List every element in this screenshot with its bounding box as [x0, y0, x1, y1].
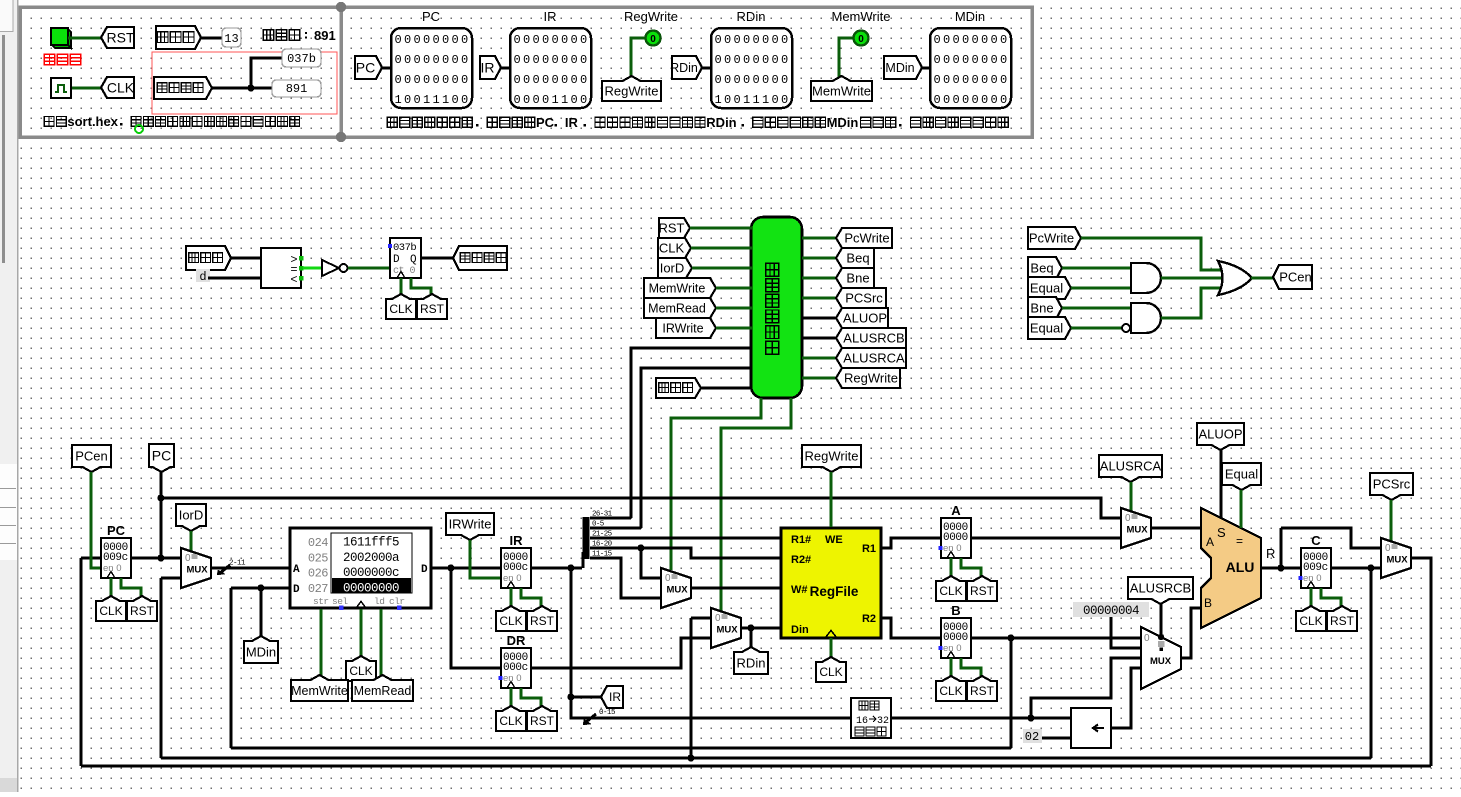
svg-text:00000000: 00000000	[395, 53, 471, 67]
svg-text:891: 891	[314, 28, 336, 43]
svg-text:CLK: CLK	[499, 614, 522, 628]
svg-text:037b: 037b	[393, 242, 416, 254]
svg-text:PCSrc: PCSrc	[845, 291, 883, 306]
svg-text:MUX: MUX	[1126, 525, 1148, 536]
svg-text:PCen: PCen	[1279, 270, 1312, 285]
svg-text:CLK: CLK	[499, 714, 522, 728]
svg-text:A: A	[293, 564, 300, 576]
svg-text:024: 024	[308, 536, 328, 550]
svg-text:Beq: Beq	[846, 251, 869, 266]
svg-text:00000000: 00000000	[934, 93, 1010, 107]
svg-text:ALUSRCA: ALUSRCA	[843, 351, 905, 366]
svg-text:RST: RST	[530, 614, 555, 628]
svg-text:PcWrite: PcWrite	[1029, 231, 1074, 246]
svg-text:ALUOP: ALUOP	[843, 311, 887, 326]
svg-text:RDin: RDin	[737, 9, 766, 24]
svg-text:RegFile: RegFile	[810, 584, 859, 599]
svg-text:00000000: 00000000	[715, 53, 791, 67]
svg-text:RegWrite: RegWrite	[605, 84, 659, 99]
svg-text:MUX: MUX	[666, 585, 688, 596]
svg-text:RST: RST	[420, 302, 445, 316]
svg-text:00000000: 00000000	[514, 33, 590, 47]
svg-text:Equal: Equal	[1030, 321, 1063, 336]
svg-text:MUX: MUX	[186, 565, 208, 576]
svg-text:PC: PC	[152, 447, 171, 463]
svg-text:0: 0	[1125, 513, 1131, 524]
svg-text:CLK: CLK	[107, 79, 135, 95]
svg-text:Bne: Bne	[1030, 301, 1053, 316]
svg-text:RegWrite: RegWrite	[844, 371, 898, 386]
svg-text:PCen: PCen	[75, 449, 108, 464]
svg-text:R2: R2	[862, 613, 876, 625]
svg-text:<: <	[290, 273, 297, 287]
svg-text:0: 0	[1144, 633, 1150, 644]
svg-text:MemWrite: MemWrite	[649, 281, 706, 295]
svg-text:13: 13	[224, 32, 238, 46]
svg-text:R: R	[1266, 546, 1275, 561]
svg-text:=: =	[1236, 534, 1243, 548]
svg-text:PC: PC	[356, 59, 375, 75]
svg-text:RST: RST	[970, 584, 995, 598]
svg-text:IorD: IorD	[660, 261, 685, 276]
svg-text:RDin: RDin	[706, 115, 736, 130]
svg-text:ALUSRCA: ALUSRCA	[1100, 459, 1162, 474]
svg-text:CLK: CLK	[99, 604, 122, 618]
svg-text:IR: IR	[609, 690, 621, 704]
svg-text:D: D	[393, 254, 400, 266]
svg-text:S: S	[1217, 525, 1226, 540]
svg-text:0: 0	[185, 553, 191, 564]
svg-text:IRWrite: IRWrite	[662, 321, 703, 335]
svg-text:PC: PC	[107, 523, 126, 538]
svg-text:Q: Q	[410, 254, 417, 266]
svg-text:0000000c: 0000000c	[343, 566, 399, 580]
svg-text:RST: RST	[659, 221, 685, 236]
svg-text:MDin: MDin	[827, 115, 859, 130]
svg-text:00000000: 00000000	[934, 33, 1010, 47]
svg-text:2-11: 2-11	[229, 560, 246, 568]
svg-text:32: 32	[877, 716, 889, 727]
svg-text:sel: sel	[332, 596, 348, 607]
svg-text:RST: RST	[107, 29, 135, 45]
svg-text:R1#: R1#	[791, 534, 811, 546]
svg-text:ct 0: ct 0	[393, 266, 416, 277]
svg-text:891: 891	[286, 82, 308, 96]
svg-text:IR: IR	[565, 115, 579, 130]
svg-text:00000000: 00000000	[514, 73, 590, 87]
svg-text:027: 027	[308, 582, 328, 596]
svg-text:00000000: 00000000	[934, 53, 1010, 67]
svg-text:MDin: MDin	[955, 9, 985, 24]
svg-text:1611fff5: 1611fff5	[343, 536, 399, 550]
svg-text:RegWrite: RegWrite	[805, 449, 859, 464]
svg-text:0: 0	[1385, 543, 1391, 554]
svg-text:0: 0	[715, 613, 721, 624]
svg-text:00000000: 00000000	[514, 53, 590, 67]
svg-text:IRWrite: IRWrite	[449, 517, 492, 532]
svg-text:IR: IR	[481, 59, 495, 75]
svg-text:CLK: CLK	[349, 664, 372, 678]
svg-text:10011100: 10011100	[395, 93, 471, 107]
svg-text:00000004: 00000004	[1083, 604, 1139, 618]
svg-text:A: A	[951, 503, 961, 518]
svg-text:MUX: MUX	[1150, 656, 1172, 667]
svg-text:CLK: CLK	[939, 684, 962, 698]
svg-text:MemWrite: MemWrite	[832, 9, 891, 24]
svg-text:RegWrite: RegWrite	[624, 9, 678, 24]
svg-text:B: B	[1204, 596, 1212, 610]
svg-text:00000000: 00000000	[715, 73, 791, 87]
svg-text:MemRead: MemRead	[648, 301, 706, 315]
svg-text:0: 0	[665, 573, 671, 584]
svg-text:clr: clr	[389, 596, 405, 607]
svg-text:CLK: CLK	[819, 665, 842, 679]
svg-text:C: C	[1311, 533, 1321, 548]
svg-text:MemRead: MemRead	[354, 684, 412, 698]
svg-text:MUX: MUX	[1386, 555, 1408, 566]
svg-text:IorD: IorD	[179, 508, 204, 523]
svg-text:025: 025	[308, 551, 328, 565]
svg-text:16: 16	[856, 716, 868, 727]
svg-text:CLK: CLK	[939, 584, 962, 598]
svg-text:IR: IR	[510, 533, 524, 548]
svg-text:PcWrite: PcWrite	[844, 231, 889, 246]
svg-text:RST: RST	[530, 714, 555, 728]
svg-text:2002000a: 2002000a	[343, 551, 400, 565]
svg-text:0-15: 0-15	[599, 709, 616, 717]
svg-text:00000000: 00000000	[715, 33, 791, 47]
svg-text:ALU: ALU	[1226, 559, 1255, 575]
svg-text:02: 02	[1025, 730, 1039, 744]
svg-text:PC: PC	[422, 9, 440, 24]
svg-text:00001100: 00001100	[514, 93, 590, 107]
svg-text:B: B	[951, 603, 960, 618]
svg-text:str: str	[313, 596, 329, 607]
svg-text:CLK: CLK	[1299, 614, 1322, 628]
svg-text:MUX: MUX	[716, 625, 738, 636]
svg-text:CLK: CLK	[389, 302, 412, 316]
svg-text:00000000: 00000000	[395, 33, 471, 47]
svg-text:D: D	[421, 564, 428, 576]
svg-text:00000000: 00000000	[934, 73, 1010, 87]
svg-text:PCSrc: PCSrc	[1373, 477, 1411, 492]
svg-text:Bne: Bne	[846, 271, 869, 286]
svg-text:026: 026	[308, 567, 328, 581]
svg-text:Beq: Beq	[1030, 261, 1053, 276]
svg-text:CLK: CLK	[659, 241, 685, 256]
svg-text:037b: 037b	[287, 52, 316, 66]
svg-text:00000000: 00000000	[343, 581, 399, 595]
svg-text:Din: Din	[791, 624, 809, 636]
svg-text:RDin: RDin	[737, 656, 766, 671]
svg-text:RDin: RDin	[670, 61, 698, 75]
svg-text:MemWrite: MemWrite	[812, 84, 871, 99]
svg-text:ALUSRCB: ALUSRCB	[1130, 581, 1191, 596]
svg-text:IR: IR	[544, 9, 557, 24]
svg-text:MDin: MDin	[885, 61, 914, 75]
svg-text:RST: RST	[130, 604, 155, 618]
svg-text:0: 0	[650, 34, 656, 45]
svg-text:PC: PC	[536, 115, 555, 130]
svg-text:R2#: R2#	[791, 554, 811, 566]
svg-text:DR: DR	[507, 633, 526, 648]
svg-text:0: 0	[858, 34, 864, 45]
svg-text:ld: ld	[374, 596, 384, 607]
svg-text:A: A	[1206, 535, 1214, 549]
svg-text:MemWrite: MemWrite	[291, 684, 348, 698]
svg-text:Equal: Equal	[1030, 281, 1063, 296]
svg-text:ALUOP: ALUOP	[1198, 427, 1242, 442]
svg-text:W#: W#	[791, 584, 808, 596]
svg-text:d: d	[199, 270, 206, 284]
svg-text:RST: RST	[1330, 614, 1355, 628]
svg-text:R1: R1	[862, 543, 876, 555]
svg-text:00000000: 00000000	[395, 73, 471, 87]
svg-text:10011100: 10011100	[715, 93, 791, 107]
svg-text:MDin: MDin	[246, 645, 276, 660]
svg-text:RST: RST	[970, 684, 995, 698]
svg-text:sort.hex: sort.hex	[67, 114, 118, 129]
svg-text:Equal: Equal	[1225, 467, 1258, 482]
svg-text:WE: WE	[825, 534, 843, 546]
svg-text:D: D	[293, 584, 300, 596]
svg-text:ALUSRCB: ALUSRCB	[843, 331, 904, 346]
